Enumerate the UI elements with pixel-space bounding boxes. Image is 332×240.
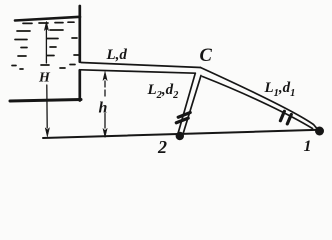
dimension H line <box>45 23 48 128</box>
outlet 1 <box>315 127 324 136</box>
pipe L1,d1 upper wall <box>201 68 320 132</box>
svg-text:L2,d2: L2,d2 <box>147 82 180 101</box>
ground <box>43 130 320 138</box>
svg-text:L1,d1: L1,d1 <box>264 80 296 99</box>
outlet 2 <box>176 132 184 140</box>
tank right wall (upper) <box>78 6 81 62</box>
water dashes <box>12 22 79 69</box>
svg-text:2: 2 <box>157 137 167 157</box>
pipe L,d top wall <box>81 63 201 68</box>
svg-text:1: 1 <box>304 138 312 155</box>
valve on pipe 1 <box>280 111 291 124</box>
pipe L2,d2 right wall <box>183 76 201 135</box>
svg-text:L,d: L,d <box>106 47 128 63</box>
svg-text:H: H <box>38 71 51 86</box>
pipe L,d bottom wall <box>81 70 195 73</box>
tank bottom <box>10 100 81 102</box>
valve on pipe 2 <box>176 113 190 123</box>
pipe L2,d2 left wall <box>178 73 195 133</box>
water surface <box>15 17 80 21</box>
svg-text:C: C <box>200 46 213 66</box>
pipe L1,d1 lower wall <box>203 77 313 129</box>
tank right wall (lower) <box>78 70 81 100</box>
svg-text:h: h <box>99 100 108 117</box>
dimension h line <box>104 81 106 128</box>
